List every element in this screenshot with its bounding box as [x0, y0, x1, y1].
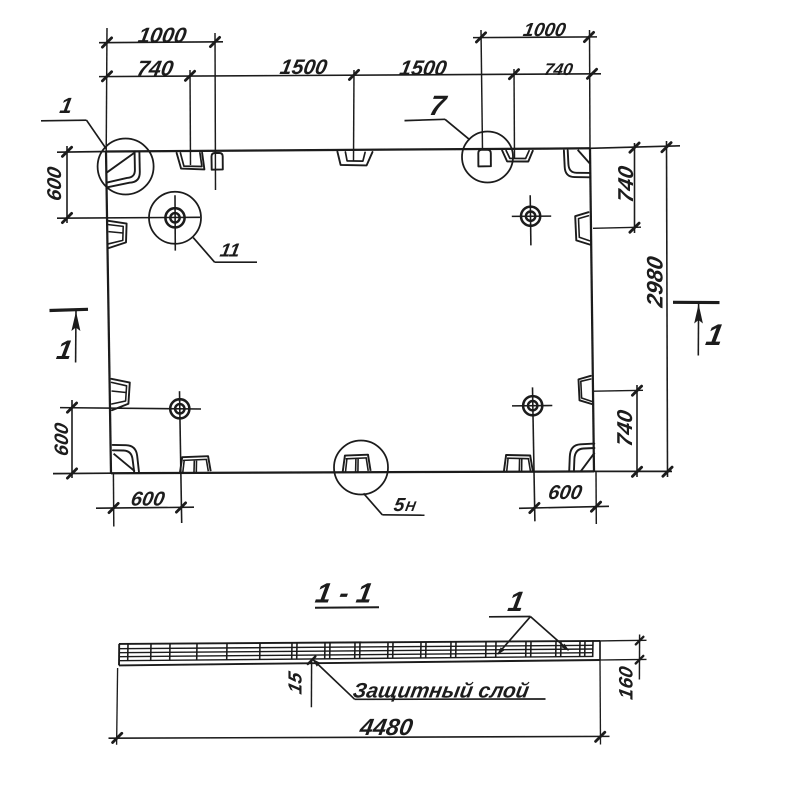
svg-text:1000: 1000 — [522, 20, 568, 41]
svg-text:160: 160 — [616, 665, 638, 701]
svg-text:1000: 1000 — [136, 23, 188, 48]
svg-text:2980: 2980 — [642, 254, 668, 310]
svg-text:740: 740 — [543, 59, 575, 79]
svg-text:600: 600 — [44, 165, 66, 202]
svg-text:600: 600 — [546, 482, 583, 504]
svg-text:740: 740 — [613, 164, 638, 204]
svg-text:1500: 1500 — [278, 56, 329, 79]
svg-text:5Н: 5Н — [392, 495, 418, 516]
svg-text:11: 11 — [218, 241, 241, 262]
svg-text:600: 600 — [129, 489, 166, 511]
svg-text:1500: 1500 — [398, 57, 449, 80]
svg-text:740: 740 — [612, 408, 637, 448]
svg-text:600: 600 — [51, 421, 73, 457]
svg-text:740: 740 — [135, 56, 175, 81]
svg-text:Защитный слой: Защитный слой — [351, 680, 531, 703]
svg-text:1-1: 1-1 — [313, 577, 383, 609]
svg-text:4480: 4480 — [357, 715, 415, 741]
